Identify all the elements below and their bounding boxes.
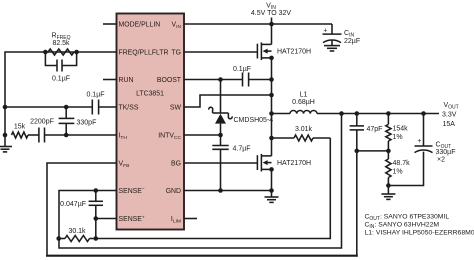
label VOUT bbox=[442, 102, 459, 128]
svg-text:22µF: 22µF bbox=[344, 38, 360, 45]
wire SW pin jog bbox=[184, 95, 272, 107]
ground left rail bbox=[0, 135, 12, 152]
resistor 48.7k bbox=[386, 151, 410, 186]
capacitor 4.7uF bbox=[212, 135, 250, 191]
svg-text:+: + bbox=[323, 28, 327, 35]
capacitor 2200pF bbox=[30, 119, 54, 143]
wire TG to Q1 gate bbox=[184, 51, 257, 53]
node ground rail / ITH bbox=[3, 133, 8, 138]
ground GND wire bbox=[265, 191, 279, 203]
wire Q2 drain up to SW bbox=[271, 114, 273, 156]
capacitor 0.1uF parallel with RFREQ bbox=[45, 52, 76, 83]
wire divider tap bbox=[357, 150, 389, 152]
node VIN bbox=[269, 22, 274, 27]
svg-text:TK/SS: TK/SS bbox=[119, 105, 139, 112]
wire SENSE+ down to 30.1k bbox=[95, 219, 97, 239]
svg-text:FREQ/PLLFLTR: FREQ/PLLFLTR bbox=[119, 49, 169, 56]
svg-text:GND: GND bbox=[166, 188, 181, 195]
svg-text:LTC3851: LTC3851 bbox=[136, 91, 164, 98]
wire FREQ/PLLFLTR to ground rail bbox=[5, 52, 117, 135]
node VOUT/sense bbox=[339, 111, 344, 116]
node tap right bbox=[386, 149, 391, 154]
svg-text:154k: 154k bbox=[393, 126, 409, 133]
wire Q1 source down SW node bbox=[271, 58, 273, 114]
wire ILIM stub bbox=[184, 218, 197, 220]
svg-text:0.1µF: 0.1µF bbox=[86, 91, 104, 98]
node SENSE+ junction bbox=[94, 216, 99, 221]
wire Q2 source to GND wire bbox=[271, 169, 273, 190]
svg-text:3.3V: 3.3V bbox=[442, 112, 457, 119]
diode D1 CMDSH05-4 bbox=[209, 80, 274, 136]
wire VOUT rail bbox=[342, 113, 440, 115]
label VIN bbox=[251, 3, 292, 17]
capacitor 0.1uF boost bbox=[233, 66, 272, 87]
svg-text:TG: TG bbox=[171, 49, 181, 56]
svg-text:15A: 15A bbox=[443, 121, 456, 128]
node 154k top bbox=[386, 111, 391, 116]
node SENSE- cap junction bbox=[94, 188, 99, 193]
node FREQ left junction bbox=[43, 50, 48, 55]
svg-text:0.1µF: 0.1µF bbox=[52, 76, 70, 83]
node ground rail / TKSS bbox=[3, 105, 8, 110]
capacitor 47pF bbox=[350, 114, 383, 151]
node 4.7uF to GND wire bbox=[218, 188, 223, 193]
node COUT top bbox=[421, 111, 426, 116]
node 30.1k left bbox=[56, 236, 61, 241]
wire BOOST bbox=[184, 79, 243, 81]
svg-text:30.1k: 30.1k bbox=[68, 228, 86, 235]
capacitor COUT 330uF x2 bbox=[415, 114, 456, 164]
transistor Q1 HAT2170H top bbox=[257, 42, 311, 60]
svg-text:330pF: 330pF bbox=[77, 120, 97, 127]
svg-text:MODE/PLLIN: MODE/PLLIN bbox=[119, 21, 161, 28]
svg-text:L1: VISHAY IHLP5050-EZERR68M01: L1: VISHAY IHLP5050-EZERR68M01 bbox=[365, 230, 474, 237]
node Q2 source bbox=[269, 167, 274, 172]
svg-text:47pF: 47pF bbox=[367, 126, 383, 133]
svg-text:82.5k: 82.5k bbox=[52, 40, 70, 47]
svg-text:4.7µF: 4.7µF bbox=[233, 145, 251, 152]
node GND junction bbox=[269, 188, 274, 193]
node Q1 source bbox=[269, 56, 274, 61]
svg-text:CMDSH05-4: CMDSH05-4 bbox=[234, 117, 274, 124]
svg-text:RUN: RUN bbox=[119, 77, 134, 84]
VIN terminal tick bbox=[271, 18, 273, 25]
svg-text:+: + bbox=[417, 138, 421, 145]
IC U1 LTC3851 body bbox=[117, 14, 185, 230]
svg-text:1%: 1% bbox=[393, 169, 403, 176]
svg-text:HAT2170H: HAT2170H bbox=[277, 49, 311, 56]
svg-text:0.047µF: 0.047µF bbox=[60, 201, 86, 208]
capacitor 0.1uF soft-start bbox=[86, 91, 116, 114]
node 30.1k right bbox=[94, 236, 99, 241]
node tap left bbox=[355, 149, 360, 154]
wire SENSE- to 30.1k and VOUT bus bbox=[59, 114, 342, 249]
wire Q1 drain to VIN bbox=[271, 24, 273, 44]
wire BG to Q2 gate bbox=[184, 162, 257, 164]
wire GND pin bbox=[184, 190, 272, 192]
wire SENSE+ bus to 3.01k bbox=[96, 138, 330, 239]
wire TK/SS ground side bbox=[5, 106, 92, 108]
wire VIN pin to CIN bbox=[184, 23, 332, 25]
svg-text:L1: L1 bbox=[300, 92, 308, 99]
svg-text:0.68µH: 0.68µH bbox=[292, 99, 315, 106]
wire 15k to 2200pF bbox=[28, 134, 39, 136]
wire INTVCC bbox=[184, 134, 221, 136]
svg-text:BG: BG bbox=[171, 161, 181, 168]
node 47pF top bbox=[355, 111, 360, 116]
ground divider bbox=[381, 186, 395, 200]
node boost cap to SW rail bbox=[269, 77, 274, 82]
wire VFB loop to divider tap bbox=[46, 151, 358, 257]
node INTVCC junction bbox=[218, 133, 223, 138]
svg-text:SENSE−: SENSE− bbox=[119, 188, 145, 196]
resistor 30.1k bbox=[59, 228, 96, 242]
node 330pF bottom bbox=[64, 133, 69, 138]
inductor L1 0.68uH bbox=[272, 92, 342, 114]
svg-text:3.01k: 3.01k bbox=[295, 126, 313, 133]
svg-text:SW: SW bbox=[170, 105, 182, 112]
resistor 3.01k bbox=[272, 126, 331, 141]
capacitor 0.047uF bbox=[60, 191, 103, 219]
svg-text:48.7k: 48.7k bbox=[393, 160, 411, 167]
node BOOST diode tap bbox=[218, 77, 223, 82]
svg-text:SENSE+: SENSE+ bbox=[119, 216, 145, 224]
node SW rail junction bbox=[269, 93, 274, 98]
svg-text:HAT2170H: HAT2170H bbox=[277, 160, 311, 167]
svg-text:4.5V TO 32V: 4.5V TO 32V bbox=[251, 10, 292, 17]
wire RUN stub bbox=[103, 79, 117, 81]
svg-text:×2: ×2 bbox=[437, 157, 445, 164]
capacitor 330pF bbox=[59, 107, 97, 135]
resistor 15k bbox=[12, 124, 29, 139]
node divider bottom bbox=[386, 183, 391, 188]
svg-text:2200pF: 2200pF bbox=[30, 119, 54, 126]
node 3.01k tap bbox=[269, 136, 274, 141]
svg-text:BOOST: BOOST bbox=[157, 77, 182, 84]
transistor Q2 HAT2170H bottom bbox=[257, 154, 311, 172]
ground CIN bbox=[324, 46, 340, 51]
node inductor left bbox=[269, 111, 274, 116]
wire MODE/PLLIN stub bbox=[103, 23, 117, 25]
svg-text:1%: 1% bbox=[393, 134, 403, 141]
svg-text:0.1µF: 0.1µF bbox=[233, 66, 251, 73]
svg-text:330µF: 330µF bbox=[436, 149, 456, 156]
resistor 154k bbox=[386, 114, 408, 151]
capacitor CIN 22uF bbox=[323, 24, 361, 46]
wire COUT bottom bbox=[388, 152, 423, 186]
wire SENSE+ bbox=[96, 218, 117, 220]
node 330pF top bbox=[64, 105, 69, 110]
resistor RFREQ 82.5k bbox=[48, 33, 74, 56]
wire ITH line bbox=[45, 134, 117, 136]
node FREQ right junction bbox=[74, 50, 79, 55]
svg-text:15k: 15k bbox=[14, 124, 26, 131]
notes text bbox=[365, 214, 474, 237]
